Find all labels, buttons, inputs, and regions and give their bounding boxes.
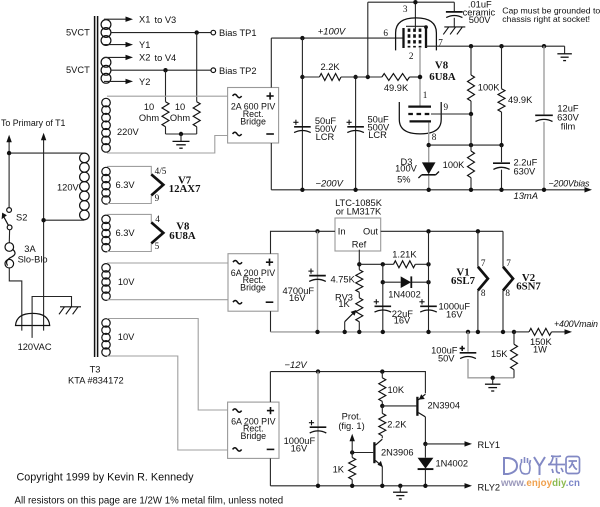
svg-text:1N4002: 1N4002 xyxy=(388,290,421,300)
junction dot out V1 xyxy=(476,229,480,233)
resistor 10K xyxy=(379,372,386,406)
junction dot prot node xyxy=(350,450,354,454)
junction dot 100V cap1 xyxy=(300,36,304,40)
svg-text:RLY1: RLY1 xyxy=(478,440,501,450)
wire cathode row xyxy=(429,144,502,146)
label 10 Ohm right xyxy=(170,102,190,123)
wire 22uF branch xyxy=(382,264,384,332)
tube V8 pentode grids xyxy=(409,29,420,48)
junction dot pentode cathode top xyxy=(424,25,428,29)
resistor 49.9K right xyxy=(498,89,505,112)
label 1N4002 relay xyxy=(436,458,469,468)
label 100K lower xyxy=(443,160,466,170)
label 3A Slo-Blo xyxy=(18,244,48,264)
wire 1.21K to out xyxy=(415,263,428,265)
transformer T3 winding 5VCT (X1/Y1) xyxy=(101,20,111,46)
tube V8 pentode envelope xyxy=(396,18,437,51)
transformer T3 winding 6.3V V8 xyxy=(102,215,110,252)
wire 12uF branch bottom xyxy=(543,122,545,190)
wire bridge6A-1 minus riser xyxy=(270,311,272,332)
svg-text:All resistors on this page are: All resistors on this page are 1/2W 1% m… xyxy=(15,496,284,507)
wire bridge2A plus riser xyxy=(270,38,272,87)
resistor 1K xyxy=(349,453,356,486)
chassis ground .01uF xyxy=(443,27,465,35)
svg-text:100V: 100V xyxy=(395,163,418,173)
label 2.2uF 630V xyxy=(514,157,538,176)
svg-text:2N3906: 2N3906 xyxy=(381,448,414,458)
wire resistor bottoms join xyxy=(166,127,197,134)
pin 7 label xyxy=(438,37,443,47)
svg-text:LCR: LCR xyxy=(316,132,335,142)
svg-text:S2: S2 xyxy=(16,213,27,223)
wire pin9 grid xyxy=(431,113,471,115)
svg-text:13mA: 13mA xyxy=(514,190,539,201)
node Bias TP2 label xyxy=(219,66,257,76)
svg-text:2N3904: 2N3904 xyxy=(428,401,461,411)
svg-text:Ohm: Ohm xyxy=(139,113,159,123)
wire +400V rail gray xyxy=(271,331,515,333)
svg-text:100K: 100K xyxy=(443,160,466,170)
svg-text:6: 6 xyxy=(383,28,388,38)
ground relay rail xyxy=(393,486,408,499)
junction dot 1N4002 left xyxy=(381,280,385,284)
transformer T3 winding 6.3V V7 xyxy=(102,167,110,204)
regulator pin Ref label xyxy=(352,239,367,249)
wire ref row xyxy=(359,263,393,265)
wire Out rail xyxy=(381,230,503,232)
node -200Vbias label xyxy=(549,179,591,189)
wire X1 lead xyxy=(104,17,133,22)
svg-text:50V: 50V xyxy=(438,354,455,364)
svg-text:8: 8 xyxy=(505,288,510,298)
svg-text:Prot.: Prot. xyxy=(342,412,362,422)
svg-text:LCR: LCR xyxy=(368,130,387,140)
svg-text:8: 8 xyxy=(481,288,486,298)
label 10K xyxy=(388,385,405,395)
svg-text:15K: 15K xyxy=(491,349,508,359)
svg-text:+400Vmain: +400Vmain xyxy=(554,319,598,329)
pin 2 label xyxy=(409,51,414,61)
label 50uF LCR 1 xyxy=(315,116,338,142)
transformer T3 winding 10V upper xyxy=(102,264,110,301)
wire 49.9K-2 stubs xyxy=(501,46,503,145)
svg-text:16V: 16V xyxy=(289,293,306,303)
svg-text:9: 9 xyxy=(155,193,160,203)
heater V2 wires xyxy=(502,231,504,332)
label 5VCT lower xyxy=(66,65,90,75)
svg-text:Bridge: Bridge xyxy=(240,116,266,126)
junction dot screen node xyxy=(366,75,370,79)
tube V8 pentode cathode bar xyxy=(425,28,427,48)
svg-text:49.9K: 49.9K xyxy=(384,83,409,93)
label 50uF LCR 2 xyxy=(368,115,391,141)
transformer T3 winding 5VCT (X2/Y2) xyxy=(101,57,111,83)
svg-text:www.enjoydiy.cn: www.enjoydiy.cn xyxy=(500,478,580,489)
label 6.3V lower xyxy=(116,228,136,238)
wire Y2 lead xyxy=(104,79,133,84)
wire 220V bottom lead to bridge xyxy=(107,136,228,154)
label 1.21K xyxy=(392,249,417,259)
svg-text:12AX7: 12AX7 xyxy=(169,183,201,195)
svg-text:chassis right at socket!: chassis right at socket! xyxy=(502,14,590,24)
label 100uF 50V xyxy=(431,346,458,364)
svg-text:In: In xyxy=(338,226,346,236)
capacitor 12uF film xyxy=(535,115,553,121)
svg-text:X1: X1 xyxy=(139,14,150,24)
wire primary bottom lead xyxy=(44,219,85,221)
svg-text:Slo-Blo: Slo-Blo xyxy=(18,254,48,264)
label 2.2K xyxy=(320,62,340,72)
wire X2 lead xyxy=(104,55,133,60)
heater V2 element xyxy=(503,267,513,291)
capacitor 50uF LCR 1 xyxy=(293,120,310,133)
svg-text:5VCT: 5VCT xyxy=(66,65,90,75)
wire -200V rail xyxy=(271,187,592,192)
resistor 2.2K xyxy=(319,74,341,81)
svg-text:Bridge: Bridge xyxy=(240,283,266,293)
label 1000uF 16V relay xyxy=(284,436,316,454)
capacitor 2.2uF xyxy=(493,145,510,190)
wire to T1 right xyxy=(41,133,46,331)
resistor 10 Ohm right xyxy=(193,102,200,127)
wiper RV3 xyxy=(345,310,357,332)
tube V8 label xyxy=(429,60,456,84)
svg-text:8: 8 xyxy=(432,132,437,142)
resistor 10 Ohm left xyxy=(162,102,169,127)
pin 8 label V1 xyxy=(481,288,486,298)
junction dot bias TP2 xyxy=(163,68,167,72)
wire triode cathode gray xyxy=(428,122,430,162)
wire Ref drop xyxy=(358,250,360,270)
svg-text:7: 7 xyxy=(506,258,511,268)
tube V8 pentode plate bar xyxy=(402,28,404,48)
svg-text:1N4002: 1N4002 xyxy=(436,458,469,468)
tube V2 6SN7 label xyxy=(516,272,541,292)
svg-text:Bias TP1: Bias TP1 xyxy=(219,28,257,38)
rectifier 6A bridge middle xyxy=(228,254,278,312)
wire 1000uF-2 branch xyxy=(317,372,319,486)
junction dot primary bottom xyxy=(41,218,45,222)
diode D3 zener xyxy=(418,162,439,178)
wire Y1 lead xyxy=(104,42,133,47)
pin 6 label xyxy=(383,28,388,38)
svg-text:6.3V: 6.3V xyxy=(116,228,136,238)
svg-text:−200Vbias: −200Vbias xyxy=(549,179,591,189)
AC plug 120VAC xyxy=(16,313,50,325)
node X2 label xyxy=(139,53,150,63)
regulator U LTC-1085K box xyxy=(335,218,381,251)
svg-text:Y1: Y1 xyxy=(139,40,150,50)
wire Bias TP2 drop xyxy=(165,70,167,102)
wire bridge6A-1 plus riser xyxy=(271,231,336,253)
svg-text:1.21K: 1.21K xyxy=(392,249,417,259)
svg-text:10: 10 xyxy=(144,102,154,112)
pin 1 label xyxy=(423,90,428,100)
wire 10V-1 leads to bridge xyxy=(107,263,228,300)
label 22uF 16V xyxy=(392,309,414,326)
svg-text:2.2K: 2.2K xyxy=(387,419,407,429)
svg-text:6.3V: 6.3V xyxy=(116,180,136,190)
wire 6.3V V8 leads xyxy=(107,214,151,251)
ground 100uF node xyxy=(485,378,501,391)
wire S2 to fuse xyxy=(8,230,10,243)
node Bias TP1 label xyxy=(219,28,257,38)
svg-text:3A: 3A xyxy=(24,244,36,254)
regulator pin Out label xyxy=(363,226,378,236)
label 4700uF 16V xyxy=(283,286,315,303)
wire 15K stubs xyxy=(513,332,515,378)
junction dot pin3 top xyxy=(413,0,417,4)
wire bridge6A-2 minus riser xyxy=(269,458,271,485)
label RV3 1K xyxy=(335,292,353,309)
node RLY1 label xyxy=(478,440,501,450)
svg-text:630V: 630V xyxy=(514,166,537,176)
junction dot grid node xyxy=(418,75,422,79)
svg-text:5%: 5% xyxy=(397,174,410,184)
wire -12V rail xyxy=(270,372,425,394)
junction dot row 100K xyxy=(469,143,473,147)
pin 7 label V1 xyxy=(481,258,486,268)
rectifier 2A 600 PIV bridge xyxy=(228,88,279,144)
junction dot pentode grid1 xyxy=(418,75,422,79)
tube V8 triode plate xyxy=(408,105,431,107)
switch S2 xyxy=(2,208,12,230)
svg-text:100K: 100K xyxy=(478,82,501,92)
label 120V primary xyxy=(57,183,80,193)
svg-text:2.2K: 2.2K xyxy=(320,62,340,72)
capacitor 22uF xyxy=(374,299,391,312)
svg-text:3: 3 xyxy=(403,4,408,14)
node X1 label xyxy=(139,14,150,24)
svg-text:500V: 500V xyxy=(469,15,492,25)
ground pin7 rail xyxy=(557,46,572,60)
resistor 100K upper xyxy=(468,75,475,101)
svg-text:10K: 10K xyxy=(388,385,405,395)
node RLY2 label xyxy=(478,483,501,493)
svg-text:Ohm: Ohm xyxy=(170,113,190,123)
label 2N3904 xyxy=(428,401,461,411)
wire 49.9K to grid node xyxy=(410,76,421,78)
svg-text:4/5: 4/5 xyxy=(155,166,167,176)
junction dot 1N4002 right xyxy=(426,280,430,284)
junction dots +400V rail xyxy=(315,330,516,334)
wire base 3906 xyxy=(352,452,373,454)
transformer T3 winding 120V primary xyxy=(80,153,90,220)
potentiometer RV3 xyxy=(356,292,363,332)
wire 6.3V V7 leads xyxy=(107,166,151,203)
resistor 100K lower xyxy=(468,151,475,178)
junction dots RLY2 rail xyxy=(316,484,428,488)
wire RLY2 rail xyxy=(270,483,472,488)
label 2N3906 xyxy=(381,448,414,458)
capacitor 4700uF xyxy=(308,269,325,282)
resistor 15K xyxy=(511,344,518,369)
node Y2 label xyxy=(139,77,150,87)
wire to T1 left xyxy=(6,135,11,208)
wire base 3904 xyxy=(382,405,416,407)
wire bridge6A-2 plus riser xyxy=(269,372,271,403)
svg-text:1K: 1K xyxy=(338,299,350,309)
resistor 4.75K xyxy=(356,270,363,293)
label S2 xyxy=(16,213,27,223)
junction dot pin9 100K xyxy=(469,112,473,116)
junction dot rail 100K xyxy=(469,44,473,48)
resistor 2.2K relay xyxy=(379,406,386,438)
svg-text:6U8A: 6U8A xyxy=(429,71,456,83)
tube V8 triode grid xyxy=(408,113,431,115)
wire +100V rail xyxy=(271,37,403,39)
wire 5VCT-1 center tap to Bias TP1 xyxy=(111,32,211,34)
svg-text:220V: 220V xyxy=(117,127,140,137)
svg-text:4.75K: 4.75K xyxy=(331,275,356,285)
wire zener to rail gray xyxy=(428,176,430,190)
label 5VCT upper xyxy=(66,28,90,38)
wire 3904 collector xyxy=(424,417,426,444)
label 2.2K relay xyxy=(387,419,407,429)
wire 12uF branch top xyxy=(543,46,545,114)
label 10V upper xyxy=(118,277,135,287)
wire primary top lead xyxy=(9,152,84,154)
label 49.9K screen xyxy=(384,83,409,93)
heater V1 element xyxy=(478,267,488,291)
wire 100uF to 15K xyxy=(468,359,514,378)
wire 4700uF branch xyxy=(317,231,319,332)
svg-text:to V4: to V4 xyxy=(155,53,177,63)
svg-text:4: 4 xyxy=(155,214,160,224)
wire 100K-2 stubs xyxy=(470,114,472,190)
rectifier 6A bridge lower xyxy=(228,402,279,458)
pin 4 label V8h xyxy=(155,214,160,224)
label 150K 1W xyxy=(530,337,553,355)
junction dot bias ground xyxy=(179,132,183,136)
label 13mA xyxy=(514,190,539,201)
resistor 49.9K screen xyxy=(382,74,410,81)
regulator pin In label xyxy=(338,226,346,236)
wire 50uF branch 2 xyxy=(355,77,357,190)
fuse 3A Slo-Blo xyxy=(5,243,15,268)
label 6.3V upper xyxy=(116,180,136,190)
pin 8 label xyxy=(432,132,437,142)
wire pentode to triode gray xyxy=(419,48,421,106)
svg-text:V8: V8 xyxy=(435,60,449,72)
svg-text:X2: X2 xyxy=(139,53,150,63)
svg-text:Ref: Ref xyxy=(352,239,367,249)
svg-text:Bias TP2: Bias TP2 xyxy=(219,66,257,76)
junction dot 22uF top xyxy=(381,262,385,266)
wire 100K-1 stubs xyxy=(470,46,472,114)
wire 220V top lead to bridge xyxy=(107,95,228,97)
svg-text:(fig. 1): (fig. 1) xyxy=(338,421,364,431)
junction dot 1.21K out xyxy=(426,262,430,266)
pin 5 label V8h xyxy=(155,241,160,251)
label T3 xyxy=(90,364,101,374)
note cap grounding xyxy=(502,6,600,25)
svg-text:1W: 1W xyxy=(533,345,547,355)
capacitor 1000uF heater xyxy=(419,299,436,312)
label 49.9K right xyxy=(508,95,533,105)
label LTC-1085K or LM317K xyxy=(335,198,383,217)
wire 100uF branch xyxy=(467,332,469,352)
wire prot arrow xyxy=(350,434,355,453)
svg-text:1K: 1K xyxy=(333,465,345,475)
pin 8 label V2 xyxy=(505,288,510,298)
svg-text:10: 10 xyxy=(175,102,185,112)
label .01uF ceramic 500V xyxy=(463,0,496,25)
svg-text:2: 2 xyxy=(409,51,414,61)
tube V1 6SL7 label xyxy=(451,267,476,287)
label resistor note xyxy=(15,496,284,507)
wire plug ground prong xyxy=(32,297,71,338)
chassis ground plug xyxy=(59,307,81,315)
transistor Q1 2N3904 xyxy=(417,394,425,417)
junction dot RLY1 node xyxy=(423,442,427,446)
heater V1 wires xyxy=(477,231,479,332)
junction dot -12V 1000uF xyxy=(316,369,320,373)
wire 5VCT-2 center tap to Bias TP2 xyxy=(111,69,211,71)
capacitor 100uF xyxy=(460,346,477,359)
terminal Bias TP1 xyxy=(211,30,216,35)
tube V8 triode cathode xyxy=(410,120,432,122)
heater V8 element xyxy=(151,222,163,243)
wire 2.2K to 49.9K xyxy=(341,76,382,78)
wire fuse to plug xyxy=(9,268,21,331)
label 1N4002 regulator xyxy=(388,290,421,300)
label 15K xyxy=(491,349,508,359)
capacitor 1000uF relay xyxy=(309,420,326,433)
svg-text:Copyright 1999 by Kevin R. Ken: Copyright 1999 by Kevin R. Kennedy xyxy=(17,472,195,484)
wire Bias TP1 drop xyxy=(196,33,198,102)
label 220V xyxy=(117,127,140,137)
junction dot lower gnd xyxy=(491,376,495,380)
svg-text:Bridge: Bridge xyxy=(240,431,266,441)
node Y1 label xyxy=(139,40,150,50)
svg-text:1: 1 xyxy=(423,90,428,100)
label 1000uF 16V heater xyxy=(439,302,471,320)
wire pin3 top net xyxy=(368,2,455,77)
svg-text:120V: 120V xyxy=(57,183,80,193)
svg-text:+100V: +100V xyxy=(318,26,346,37)
node to V3 label xyxy=(155,15,177,25)
pin 9 label V7 xyxy=(155,193,160,203)
svg-text:6U8A: 6U8A xyxy=(169,230,196,242)
label 10V lower xyxy=(118,332,135,342)
svg-text:To Primary of T1: To Primary of T1 xyxy=(1,118,65,128)
node +400Vmain label xyxy=(554,319,598,329)
label 10 Ohm left xyxy=(139,102,159,123)
junction dot bias TP1 xyxy=(195,30,199,34)
wire pin7 rail xyxy=(426,45,565,47)
label 1K xyxy=(333,465,345,475)
resistor 1.21K xyxy=(394,261,416,268)
junction dot row 2.2uF xyxy=(499,143,503,147)
svg-text:5: 5 xyxy=(155,241,160,251)
label copyright xyxy=(17,472,195,484)
svg-text:120VAC: 120VAC xyxy=(18,342,52,352)
transformer T3 winding 10V lower xyxy=(102,319,110,357)
label 120VAC xyxy=(18,342,52,352)
svg-text:5VCT: 5VCT xyxy=(66,28,90,38)
svg-text:16V: 16V xyxy=(291,444,308,454)
svg-text:−12V: −12V xyxy=(285,359,308,370)
node +100V label xyxy=(318,26,346,37)
diode 1N4002 regulator xyxy=(401,276,412,288)
label D3 100V 5% xyxy=(395,157,418,185)
watermark DIY logo xyxy=(504,456,580,475)
tube V8 triode envelope xyxy=(399,102,441,134)
svg-text:6SL7: 6SL7 xyxy=(451,275,476,287)
transistor Q2 2N3906 xyxy=(374,439,383,467)
transformer T3 core xyxy=(95,16,98,357)
